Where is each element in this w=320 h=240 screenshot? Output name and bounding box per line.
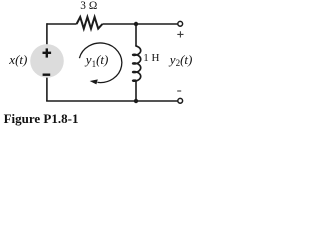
mesh current y1 arrow arc (79, 43, 121, 83)
mesh arrow head (90, 79, 98, 84)
wire: inductor branch top (135, 24, 137, 46)
label y2(t) output (170, 53, 193, 66)
inductor L 1H coil (133, 46, 141, 81)
wire: top-left horizontal from corner to resistor (47, 23, 77, 25)
node: junction dot bottom (134, 99, 138, 103)
resistor R 3ohm zigzag (77, 17, 103, 29)
wire: left vertical (bottom, from source) (46, 77, 48, 102)
terminal: open circle bottom right (178, 98, 183, 103)
terminal polarity plus (177, 31, 183, 91)
terminal: open circle top right (178, 21, 183, 26)
caption Figure P1.8-1 (4, 112, 79, 125)
label 1 H inductor value (143, 53, 159, 64)
wire: inductor branch bottom (135, 80, 137, 101)
source minus marking (43, 74, 51, 76)
wire: top-right horizontal from resistor to terminal (102, 23, 178, 25)
node: junction dot top (resistor/inductor/terminal) (134, 22, 138, 26)
label x(t) (9, 53, 27, 66)
label 3 ohm (80, 1, 97, 12)
terminal polarity minus (177, 90, 181, 92)
wire: left vertical (top, into source) (46, 23, 48, 45)
label y1(t) mesh current (86, 53, 109, 66)
source plus marking (43, 48, 52, 76)
wire: bottom horizontal (46, 100, 178, 102)
voltage source x(t) (30, 44, 64, 78)
